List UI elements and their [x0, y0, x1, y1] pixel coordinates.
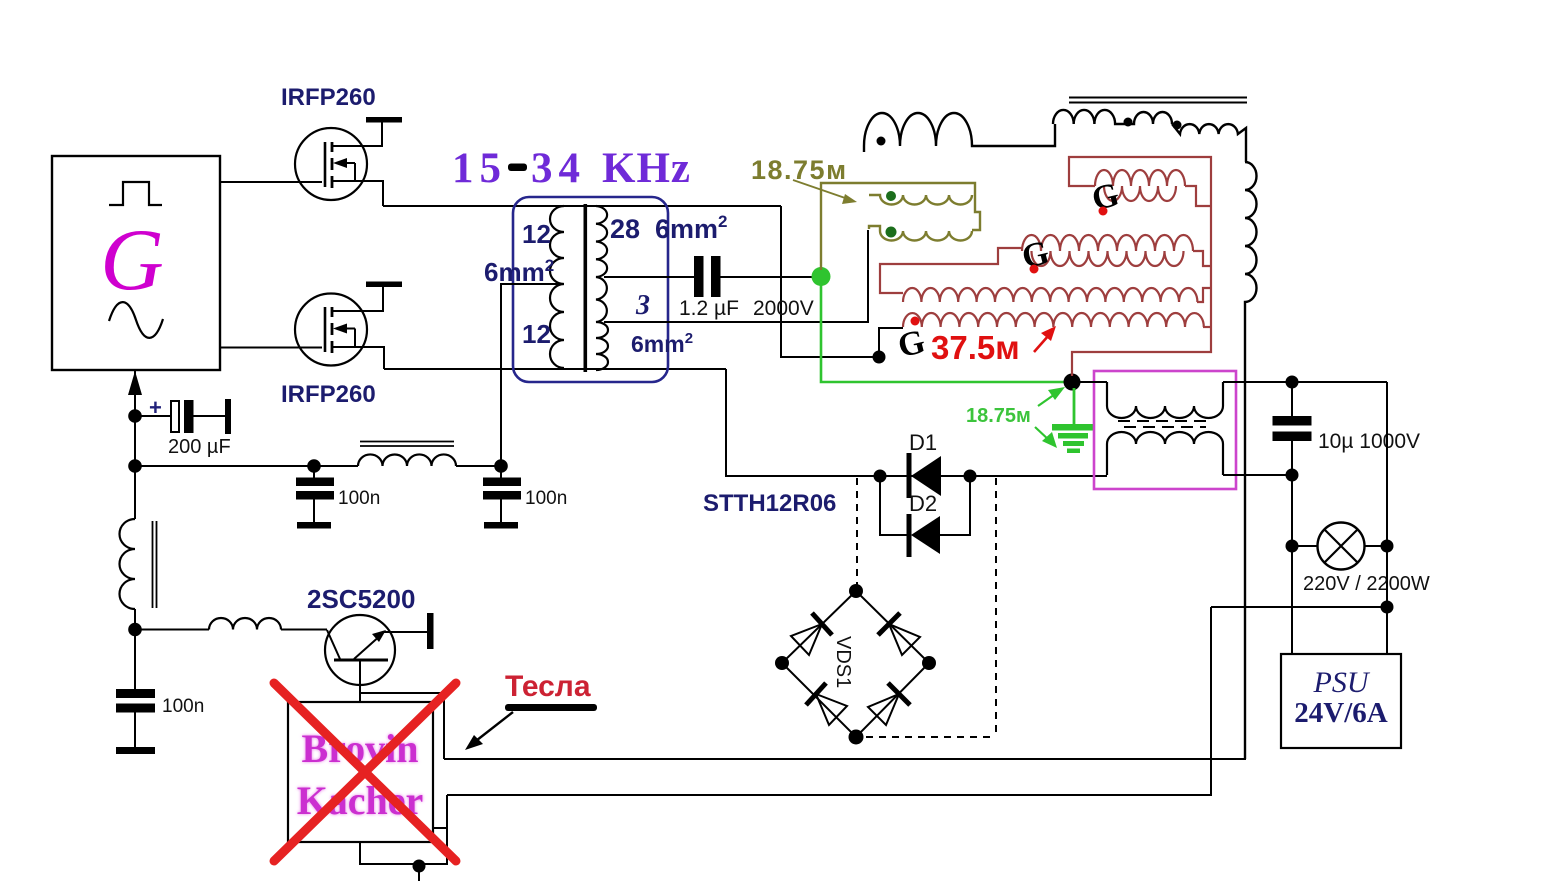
lamp 220V	[1318, 523, 1365, 570]
wire right rail down	[1386, 382, 1388, 546]
svg-text:12: 12	[522, 219, 551, 249]
wire PSU feed horizontal	[1211, 606, 1387, 608]
node red dot D	[911, 317, 920, 326]
svg-text:Тесла: Тесла	[505, 670, 591, 703]
svg-text:18.75м: 18.75м	[966, 405, 1031, 427]
svg-text:28: 28	[610, 214, 640, 244]
pulse symbol inside generator	[109, 182, 162, 205]
wire supply into generator with arrow	[134, 392, 136, 418]
wire transformer top right to rail	[1223, 381, 1387, 383]
svg-text:10µ 1000V: 10µ 1000V	[1318, 430, 1420, 453]
capacitor 100n second	[500, 369, 502, 478]
wire emitter tap to output	[360, 693, 444, 759]
top double line core	[1069, 98, 1247, 103]
svg-text:1534KHz: 1534KHz	[452, 145, 691, 192]
svg-text:200 µF: 200 µF	[168, 436, 231, 458]
red arrow to winding	[1034, 335, 1049, 352]
wire left supply rail vertical	[134, 370, 136, 690]
isolation transformer core dashed	[1118, 421, 1212, 427]
svg-text:6mm2: 6mm2	[655, 212, 728, 244]
node at 100n cap 2	[494, 459, 508, 473]
wire bottom rail down to rectifier rail	[726, 369, 1107, 476]
PSU box	[1281, 654, 1401, 748]
inductor olive feedback winding lower	[972, 199, 980, 230]
inductor right vertical coil	[1245, 162, 1257, 759]
node bridge bottom	[849, 730, 864, 745]
svg-text:2SC5200: 2SC5200	[307, 584, 415, 614]
transformer T1 outline box	[513, 197, 668, 382]
green arrow to node	[1038, 392, 1058, 406]
node dot coil1	[877, 137, 886, 146]
bridge diode bottom-left	[806, 683, 826, 705]
wire transformer bottom right to cap	[1223, 474, 1292, 476]
node base drive	[128, 623, 142, 637]
wire secondary top down right side	[781, 206, 879, 357]
transistor Q3 2SC5200	[325, 615, 395, 685]
node olive dot upper	[886, 191, 896, 201]
inductor top coil row2	[1053, 110, 1172, 124]
wire top MOSFET source to secondary top rail	[383, 205, 781, 207]
svg-text:6mm2: 6mm2	[631, 330, 693, 357]
svg-text:STTH12R06: STTH12R06	[703, 490, 836, 517]
svg-text:1.2 µF: 1.2 µF	[679, 297, 739, 320]
svg-text:IRFP260: IRFP260	[281, 84, 376, 111]
bridge diamond wires	[782, 591, 929, 737]
isolation transformer box magenta	[1094, 371, 1236, 489]
inductor left vertical	[119, 519, 135, 609]
inductor brown row A lower arcs	[1104, 186, 1176, 201]
svg-text:+: +	[149, 395, 162, 420]
svg-text:12: 12	[522, 319, 551, 349]
wire secondary tap lower to olive winding	[604, 230, 868, 322]
dashed wire right	[866, 478, 996, 737]
inductor brown row C arcs	[903, 288, 1197, 302]
node supply rail top	[128, 409, 142, 423]
wire brown outline top and right	[1069, 157, 1211, 376]
wire brown row D right	[1203, 326, 1211, 328]
transformer T1 primary winding	[550, 206, 564, 368]
dashed wire left	[856, 478, 858, 585]
svg-text:IRFP260: IRFP260	[281, 381, 376, 408]
transistor Q1 IRFP260 top MOSFET	[295, 128, 367, 200]
inductor top coil row3	[1172, 124, 1246, 162]
wire green to ground node	[821, 283, 1066, 382]
wire tesla feed upper	[444, 758, 1246, 760]
node olive dot lower	[886, 227, 897, 238]
capacitor 200uF polarized	[135, 415, 171, 417]
bridge diode top-left	[812, 613, 832, 635]
node bridge top	[849, 584, 863, 598]
transistor Q2 IRFP260 bottom MOSFET	[295, 294, 367, 366]
node dot coil3	[1173, 121, 1182, 130]
bridge diode bottom-right	[888, 683, 910, 705]
svg-text:24V/6A: 24V/6A	[1294, 697, 1388, 729]
node lamp right	[1381, 540, 1394, 553]
svg-text:18.75м: 18.75м	[751, 155, 848, 185]
bridge diode top-right	[878, 613, 900, 635]
sine symbol inside generator	[109, 302, 163, 338]
svg-text:100n: 100n	[525, 488, 567, 509]
node supply mid	[128, 459, 142, 473]
node at 100n cap 1	[307, 459, 321, 473]
svg-text:6mm2: 6mm2	[484, 256, 554, 287]
wire brown row C right	[1197, 288, 1211, 302]
olive arrow to winding	[793, 180, 848, 199]
wire secondary tap upper	[604, 276, 694, 278]
wire green node to earth	[1073, 388, 1076, 425]
node secondary return	[873, 351, 886, 364]
transformer T1 core	[584, 204, 588, 372]
svg-text:220V / 2200W: 220V / 2200W	[1303, 573, 1430, 595]
wire base coil to transistor	[281, 629, 327, 631]
node green resonant tap	[812, 267, 831, 286]
wire gate bottom MOSFET	[220, 347, 322, 349]
transformer T1 secondary winding	[596, 206, 608, 370]
capacitor 100n third	[134, 629, 136, 690]
wire node up to red winding start	[879, 328, 903, 357]
inductor olive feedback winding upper	[821, 183, 975, 270]
svg-text:37.5м: 37.5м	[931, 329, 1020, 366]
node bridge left	[775, 656, 789, 670]
wire cap bottom to lamp and PSU	[1291, 475, 1293, 654]
node PSU feed	[1381, 601, 1394, 614]
node dot coil2	[1124, 118, 1133, 127]
node red dot B	[1030, 265, 1039, 274]
Brovin Kacher box	[288, 702, 433, 842]
node cap bottom	[1286, 469, 1299, 482]
svg-text:D2: D2	[909, 491, 937, 516]
svg-text:100n: 100n	[162, 696, 204, 717]
capacitor 1.2uF plates	[694, 256, 704, 297]
svg-text:3: 3	[635, 290, 650, 321]
node bottom terminal	[413, 860, 426, 873]
node D1 right	[964, 470, 977, 483]
generator box G	[52, 156, 220, 370]
node main ground junction	[1064, 374, 1081, 391]
node lamp left	[1286, 540, 1299, 553]
wire brown row B left hook	[880, 248, 1022, 293]
wire horizontal supply to filter	[135, 465, 358, 467]
wire gate top MOSFET	[220, 181, 322, 183]
svg-text:D1: D1	[909, 430, 937, 455]
svg-text:2000V: 2000V	[753, 297, 814, 320]
wire primary center tap	[501, 284, 564, 466]
svg-text:VDS1: VDS1	[832, 636, 854, 688]
inductor top coupling coil big	[864, 113, 1055, 152]
isolation transformer bottom winding	[1107, 432, 1223, 475]
node red dot A	[1099, 207, 1108, 216]
isolation transformer top winding	[1107, 382, 1223, 418]
svg-text:PSU: PSU	[1313, 666, 1371, 699]
inductor brown row B lower arcs	[1032, 251, 1184, 266]
diode D1	[907, 453, 912, 498]
diode D2 branch	[880, 476, 970, 535]
wire tesla feed lower	[447, 607, 1211, 795]
green arrow to earth	[1035, 427, 1050, 441]
wire node to base coil	[135, 629, 209, 631]
node bridge right	[922, 656, 936, 670]
inductor brown row D arcs	[903, 313, 1204, 327]
wire brown row A right step	[1185, 186, 1211, 206]
svg-text:100n: 100n	[338, 488, 380, 509]
ground symbol earth	[1052, 424, 1093, 453]
svg-text:G: G	[100, 212, 164, 309]
diode D2	[907, 514, 912, 557]
inductor brown row B upper arcs	[1022, 235, 1193, 251]
wire choke to 100n cap 2	[456, 465, 501, 467]
wire bottom MOSFET source to bottom rail	[384, 368, 726, 370]
wire cap to green node	[721, 276, 816, 278]
wire box bottom stub	[360, 795, 447, 864]
wire brown row B right step	[1193, 251, 1211, 266]
capacitor 100n first	[313, 466, 315, 478]
inductor filter choke	[358, 454, 456, 466]
wire node to transformer top left	[1072, 381, 1107, 383]
inductor base coil	[209, 618, 281, 630]
capacitor 10uF 1000V	[1291, 382, 1293, 417]
node D1 left	[874, 470, 887, 483]
Tesla underline bar	[505, 704, 597, 711]
inductor brown row A upper arcs	[1095, 170, 1185, 186]
red cross over Brovin box	[274, 683, 456, 861]
wire lamp right down	[1386, 546, 1388, 654]
node cap top	[1286, 376, 1299, 389]
Tesla arrow	[472, 712, 513, 744]
